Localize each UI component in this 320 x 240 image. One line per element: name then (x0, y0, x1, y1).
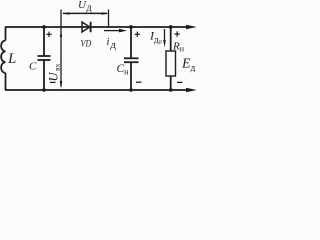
wire left upper (5, 27, 7, 41)
resistor Rn box (166, 51, 176, 76)
node junction Rn bottom (169, 88, 173, 92)
svg-text:C: C (29, 61, 37, 73)
minus sign at C bottom (50, 81, 56, 83)
current arrow i_D (104, 30, 120, 32)
U_D arrowhead left (62, 12, 70, 15)
wire bottom (5, 89, 188, 91)
inductor L (1, 41, 5, 73)
voltage annotation U_D dimension line (63, 12, 107, 14)
wire capacitor Cn branch lower (130, 62, 132, 90)
voltage annotation Uvx arrow line (60, 10, 62, 87)
output terminal arrow top (186, 25, 197, 29)
wire resistor Rn branch upper (170, 27, 172, 51)
wire capacitor Cn branch upper (130, 27, 132, 58)
capacitor Cn plates (124, 57, 139, 59)
current annotation I_D0 arrow (164, 29, 166, 41)
wire resistor Rn branch lower (170, 76, 172, 90)
node junction Cn bottom (129, 88, 133, 92)
wire left lower (5, 73, 7, 90)
node junction C bottom (42, 88, 46, 92)
Uvx arrowhead up (60, 30, 62, 37)
minus sign at Cn bottom (136, 81, 141, 83)
plus sign at Cn (135, 32, 140, 37)
diode VD cathode bar (90, 22, 92, 32)
svg-text:L: L (7, 51, 16, 67)
output terminal arrow bottom (186, 88, 197, 92)
node junction Cn top (129, 25, 133, 29)
wire capacitor C branch lower (43, 60, 45, 90)
Uvx arrowhead down (60, 81, 63, 89)
node junction Rn top (169, 25, 173, 29)
plus sign at C (46, 32, 51, 37)
diode VD triangle (82, 22, 90, 32)
plus sign at Rn (174, 31, 179, 36)
wire top (5, 26, 188, 28)
wire capacitor C branch upper (43, 27, 45, 56)
U_D right tick (108, 10, 110, 27)
minus sign at En bottom (177, 81, 182, 83)
capacitor C plates (38, 55, 51, 57)
node junction C top (42, 25, 46, 29)
svg-text:VD: VD (81, 39, 92, 49)
U_D arrowhead right (102, 12, 110, 15)
